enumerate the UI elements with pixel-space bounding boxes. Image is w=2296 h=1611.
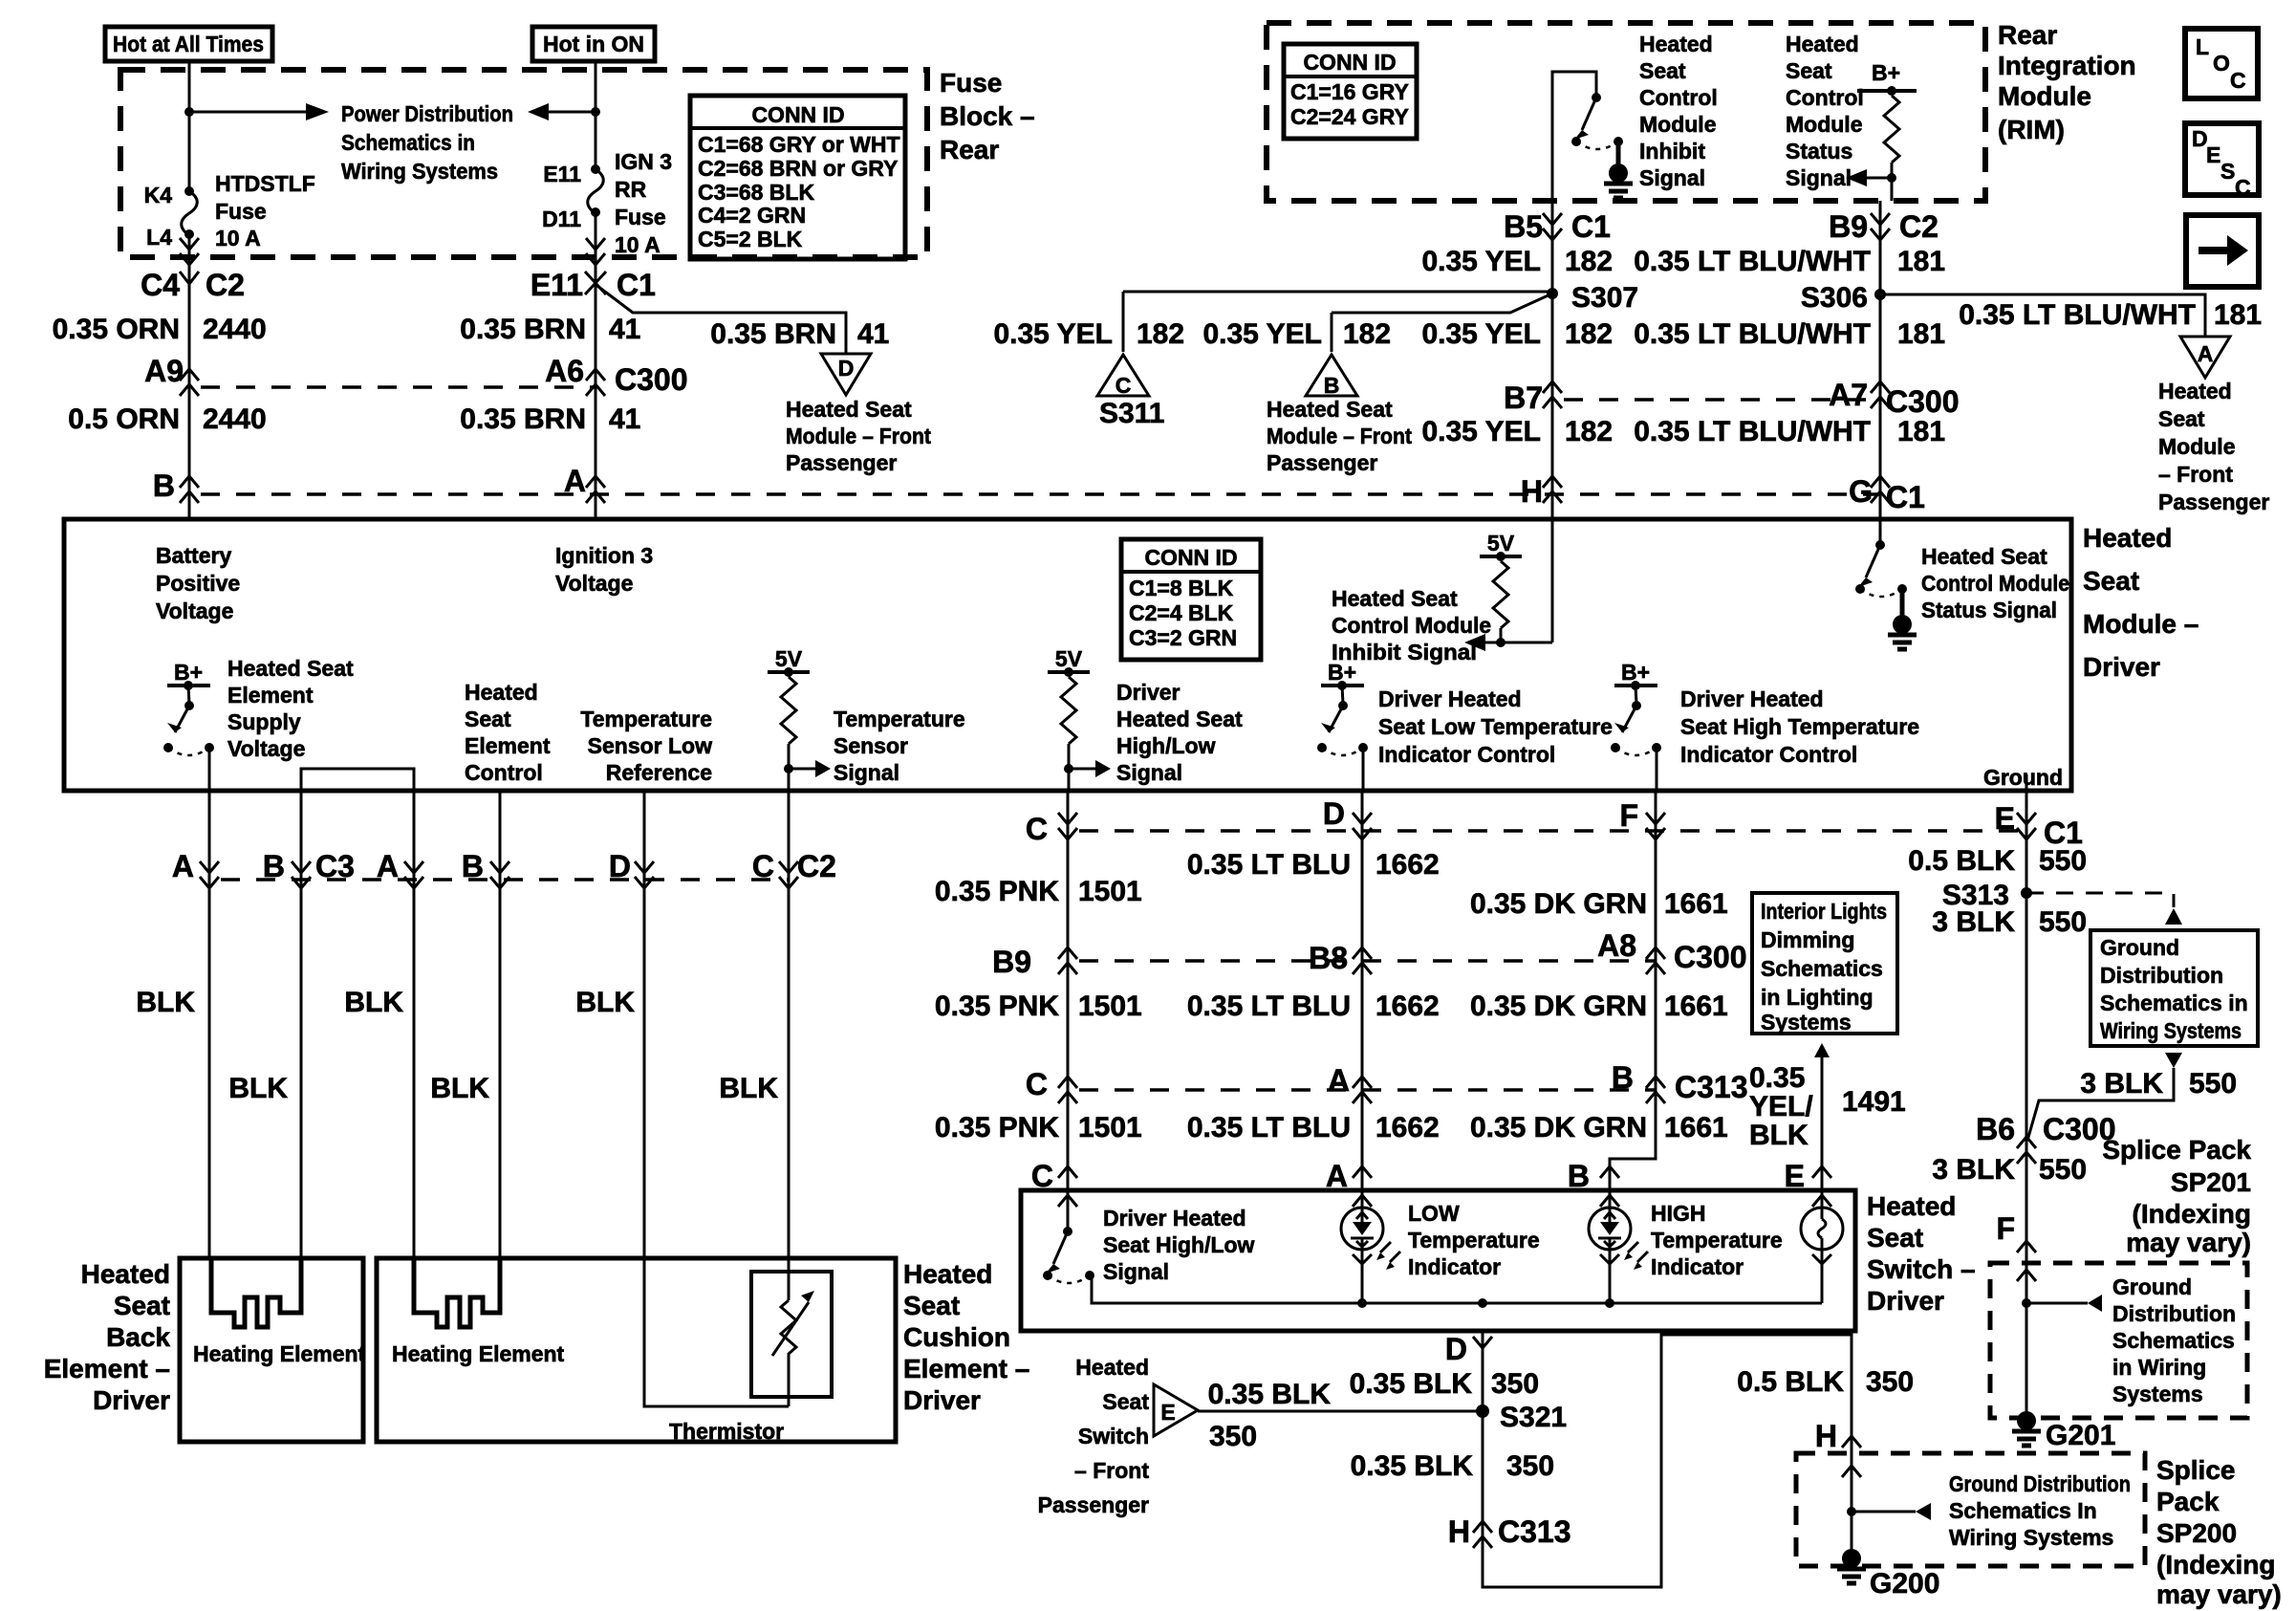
svg-text:(Indexing: (Indexing (2133, 1199, 2251, 1229)
svg-text:C: C (1031, 1159, 1053, 1193)
svg-text:C: C (2235, 175, 2251, 200)
svg-text:E: E (1995, 801, 2015, 836)
svg-text:Hot in ON: Hot in ON (543, 32, 644, 56)
svg-text:D: D (609, 849, 631, 883)
svg-text:Status Signal: Status Signal (1921, 598, 2057, 622)
svg-text:(Indexing: (Indexing (2156, 1550, 2275, 1579)
svg-text:Wiring Systems: Wiring Systems (1949, 1525, 2113, 1550)
svg-text:3 BLK: 3 BLK (2080, 1068, 2163, 1099)
svg-text:Block –: Block – (940, 101, 1035, 131)
svg-text:181: 181 (1897, 318, 1945, 350)
svg-text:Cushion: Cushion (903, 1322, 1010, 1352)
svg-text:Heated: Heated (1075, 1355, 1149, 1380)
svg-text:Control: Control (465, 760, 543, 785)
svg-text:Control Module: Control Module (1921, 571, 2069, 596)
svg-text:Ground: Ground (1983, 765, 2063, 790)
svg-text:HIGH: HIGH (1651, 1201, 1706, 1226)
svg-text:Passenger: Passenger (786, 450, 897, 475)
svg-text:CONN ID: CONN ID (751, 102, 844, 127)
svg-text:Seat: Seat (1867, 1223, 1923, 1252)
svg-text:LOW: LOW (1408, 1201, 1460, 1226)
svg-text:Heated Seat: Heated Seat (1921, 544, 2047, 569)
svg-text:Heating Element: Heating Element (193, 1341, 366, 1366)
svg-text:A: A (1326, 1159, 1348, 1193)
svg-text:Reference: Reference (606, 760, 712, 785)
svg-text:L4: L4 (146, 225, 172, 250)
svg-text:C3: C3 (315, 849, 355, 883)
svg-text:0.35 BRN: 0.35 BRN (460, 403, 586, 435)
svg-text:Status: Status (1786, 139, 1852, 163)
svg-text:CONN ID: CONN ID (1144, 545, 1237, 570)
svg-text:C300: C300 (1886, 384, 1960, 419)
svg-text:B9: B9 (1829, 209, 1868, 244)
svg-text:(RIM): (RIM) (1998, 115, 2065, 144)
svg-text:Ground Distribution: Ground Distribution (1949, 1471, 2131, 1496)
svg-text:Ground: Ground (2112, 1274, 2192, 1299)
svg-text:C300: C300 (1674, 940, 1747, 974)
svg-text:Signal: Signal (1786, 165, 1852, 190)
svg-text:Switch: Switch (1078, 1424, 1149, 1448)
svg-text:B+: B+ (1872, 60, 1900, 85)
svg-text:E11: E11 (531, 268, 583, 302)
svg-text:B+: B+ (174, 660, 203, 685)
svg-text:5V: 5V (775, 646, 803, 671)
svg-text:Schematics in: Schematics in (341, 130, 475, 155)
svg-text:0.5 BLK: 0.5 BLK (1908, 845, 2015, 877)
svg-text:Heated: Heated (465, 680, 538, 705)
svg-text:– Front: – Front (2158, 462, 2233, 487)
svg-text:0.35 LT BLU/WHT: 0.35 LT BLU/WHT (1634, 246, 1871, 277)
svg-text:182: 182 (1137, 318, 1184, 350)
svg-text:Heated Seat: Heated Seat (786, 397, 912, 422)
svg-text:BLK: BLK (228, 1073, 288, 1104)
svg-text:C: C (752, 849, 774, 883)
svg-text:C1=8 BLK: C1=8 BLK (1129, 576, 1234, 600)
svg-text:C1=16 GRY: C1=16 GRY (1290, 79, 1409, 104)
svg-text:0.35 BLK: 0.35 BLK (1351, 1450, 1474, 1482)
svg-text:0.35 YEL: 0.35 YEL (1421, 416, 1541, 447)
svg-text:1491: 1491 (1842, 1086, 1906, 1118)
svg-text:0.35 PNK: 0.35 PNK (935, 876, 1059, 907)
svg-text:550: 550 (2039, 845, 2087, 877)
svg-text:Inhibit: Inhibit (1639, 139, 1705, 163)
svg-text:High/Low: High/Low (1116, 733, 1216, 758)
svg-text:Signal: Signal (1116, 760, 1182, 785)
svg-text:S: S (2220, 159, 2235, 184)
svg-text:Module: Module (1639, 112, 1717, 137)
svg-text:Indicator: Indicator (1408, 1254, 1501, 1279)
svg-text:350: 350 (1866, 1366, 1914, 1398)
svg-text:1661: 1661 (1664, 888, 1728, 920)
svg-text:Distribution: Distribution (2100, 963, 2223, 988)
svg-text:S307: S307 (1571, 282, 1638, 314)
svg-text:Module – Front: Module – Front (1267, 424, 1412, 448)
svg-text:B: B (153, 468, 175, 503)
svg-text:Seat: Seat (2158, 406, 2205, 431)
svg-text:– Front: – Front (1074, 1458, 1149, 1483)
svg-text:0.35 PNK: 0.35 PNK (935, 991, 1059, 1022)
svg-text:Power Distribution: Power Distribution (341, 101, 513, 126)
svg-text:Control Module: Control Module (1332, 613, 1491, 638)
svg-text:Module: Module (1998, 81, 2091, 111)
svg-text:A7: A7 (1829, 378, 1868, 412)
svg-text:5V: 5V (1055, 646, 1083, 671)
svg-text:10 A: 10 A (615, 232, 661, 257)
svg-text:D: D (838, 356, 855, 381)
svg-text:Element: Element (227, 683, 314, 708)
svg-text:0.35 YEL: 0.35 YEL (993, 318, 1113, 350)
svg-text:Ignition 3: Ignition 3 (555, 543, 653, 568)
svg-text:D11: D11 (542, 207, 581, 231)
svg-text:Heated: Heated (1867, 1191, 1956, 1221)
svg-text:Passenger: Passenger (1038, 1492, 1149, 1517)
svg-text:Heated: Heated (2083, 523, 2172, 553)
svg-text:E: E (1785, 1159, 1805, 1193)
svg-text:Seat: Seat (114, 1291, 170, 1320)
svg-text:Temperature: Temperature (834, 707, 965, 731)
svg-text:C1: C1 (1886, 480, 1925, 514)
svg-text:Fuse: Fuse (615, 205, 666, 229)
svg-text:41: 41 (609, 403, 640, 435)
svg-text:Hot at All Times: Hot at All Times (113, 32, 264, 56)
svg-text:Battery: Battery (156, 543, 231, 568)
svg-text:181: 181 (1897, 416, 1945, 447)
svg-text:3 BLK: 3 BLK (1932, 1154, 2015, 1186)
svg-text:A: A (377, 849, 399, 883)
svg-text:C2: C2 (206, 268, 245, 302)
svg-text:3 BLK: 3 BLK (1932, 906, 2015, 938)
svg-text:C3=68 BLK: C3=68 BLK (698, 180, 814, 205)
svg-text:BLK: BLK (430, 1073, 489, 1104)
svg-text:Wiring Systems: Wiring Systems (341, 159, 498, 184)
svg-text:C313: C313 (1675, 1070, 1748, 1104)
svg-text:Seat: Seat (2083, 566, 2139, 596)
svg-text:0.35 ORN: 0.35 ORN (53, 314, 180, 345)
svg-text:G200: G200 (1870, 1568, 1939, 1600)
svg-text:Heating Element: Heating Element (392, 1341, 565, 1366)
svg-text:Signal: Signal (1103, 1259, 1169, 1284)
svg-text:10 A: 10 A (215, 226, 261, 250)
svg-text:Thermistor: Thermistor (669, 1419, 784, 1444)
svg-text:0.35 DK GRN: 0.35 DK GRN (1470, 991, 1647, 1022)
svg-text:Sensor Low: Sensor Low (588, 733, 712, 758)
svg-text:Seat: Seat (1639, 58, 1686, 83)
svg-text:Heated Seat: Heated Seat (227, 656, 354, 681)
svg-text:182: 182 (1565, 246, 1613, 277)
svg-text:Seat High Temperature: Seat High Temperature (1680, 714, 1919, 739)
svg-text:Seat: Seat (1786, 58, 1832, 83)
svg-text:Supply: Supply (227, 709, 301, 734)
svg-text:0.35 BRN: 0.35 BRN (710, 318, 836, 350)
svg-text:F: F (1996, 1211, 2015, 1246)
svg-text:CONN ID: CONN ID (1303, 50, 1396, 75)
svg-text:may vary): may vary) (2126, 1228, 2251, 1257)
svg-text:A9: A9 (144, 354, 184, 388)
svg-text:Heated: Heated (903, 1259, 992, 1289)
svg-text:BLK: BLK (575, 987, 635, 1018)
svg-text:41: 41 (609, 314, 640, 345)
svg-text:Driver: Driver (903, 1385, 981, 1415)
svg-text:Driver: Driver (1116, 680, 1180, 705)
svg-text:F: F (1619, 798, 1638, 833)
svg-text:Module –: Module – (2083, 609, 2199, 639)
svg-text:0.35 LT BLU/WHT: 0.35 LT BLU/WHT (1959, 299, 2196, 331)
svg-text:B: B (1568, 1159, 1590, 1193)
svg-text:S321: S321 (1500, 1402, 1567, 1433)
svg-text:A6: A6 (545, 354, 584, 388)
svg-text:Heated Seat: Heated Seat (1332, 586, 1458, 611)
svg-text:Schematics: Schematics (2112, 1328, 2235, 1353)
svg-text:0.35 BLK: 0.35 BLK (1350, 1368, 1473, 1400)
svg-text:C: C (2230, 68, 2246, 93)
svg-text:B: B (462, 849, 484, 883)
svg-text:B8: B8 (1309, 941, 1348, 975)
svg-text:0.35 YEL: 0.35 YEL (1421, 246, 1541, 277)
svg-text:Indicator Control: Indicator Control (1378, 742, 1555, 767)
svg-text:Seat: Seat (1102, 1389, 1149, 1414)
svg-text:1661: 1661 (1664, 1112, 1728, 1143)
svg-text:182: 182 (1565, 318, 1613, 350)
svg-text:HTDSTLF: HTDSTLF (215, 171, 315, 196)
svg-text:0.35 LT BLU/WHT: 0.35 LT BLU/WHT (1634, 416, 1871, 447)
svg-text:Heated Seat: Heated Seat (1267, 397, 1393, 422)
svg-text:Passenger: Passenger (2158, 490, 2269, 514)
svg-text:Driver Heated: Driver Heated (1378, 686, 1522, 711)
svg-text:BLK: BLK (136, 987, 195, 1018)
svg-text:Interior Lights: Interior Lights (1761, 899, 1887, 924)
svg-text:Distribution: Distribution (2112, 1301, 2236, 1326)
svg-text:Voltage: Voltage (156, 599, 233, 623)
svg-text:0.35 LT BLU: 0.35 LT BLU (1187, 849, 1351, 881)
svg-text:350: 350 (1491, 1368, 1539, 1400)
svg-text:E: E (2206, 142, 2220, 167)
svg-text:Systems: Systems (1761, 1010, 1852, 1034)
svg-text:0.35 LT BLU/WHT: 0.35 LT BLU/WHT (1634, 318, 1871, 350)
svg-text:C3=2 GRN: C3=2 GRN (1129, 625, 1237, 650)
svg-text:H: H (1521, 474, 1543, 509)
svg-text:Wiring Systems: Wiring Systems (2100, 1018, 2242, 1043)
svg-text:C2=4 BLK: C2=4 BLK (1129, 600, 1234, 625)
svg-text:Rear: Rear (940, 135, 999, 164)
svg-text:C1=68 GRY or WHT: C1=68 GRY or WHT (698, 132, 900, 157)
svg-text:C5=2 BLK: C5=2 BLK (698, 227, 803, 251)
svg-text:Back: Back (106, 1322, 170, 1352)
svg-text:L: L (2196, 34, 2209, 59)
svg-text:Voltage: Voltage (555, 571, 633, 596)
svg-text:Seat High/Low: Seat High/Low (1103, 1232, 1255, 1257)
svg-text:A: A (2198, 341, 2214, 366)
svg-text:Schematics In: Schematics In (1949, 1498, 2097, 1523)
svg-text:YEL/: YEL/ (1749, 1091, 1813, 1122)
svg-text:1501: 1501 (1078, 1112, 1142, 1143)
svg-text:181: 181 (2214, 299, 2262, 331)
svg-text:A: A (1328, 1063, 1350, 1098)
svg-text:Dimming: Dimming (1761, 927, 1854, 952)
svg-text:C2=68 BRN or GRY: C2=68 BRN or GRY (698, 156, 898, 181)
svg-text:Control: Control (1786, 85, 1864, 110)
svg-text:Element: Element (465, 733, 551, 758)
svg-text:RR: RR (615, 177, 647, 202)
svg-text:Rear: Rear (1998, 20, 2057, 50)
svg-text:in Wiring: in Wiring (2112, 1355, 2206, 1380)
svg-text:E11: E11 (543, 162, 581, 186)
svg-text:1662: 1662 (1375, 849, 1440, 881)
svg-text:Signal: Signal (1639, 165, 1705, 190)
svg-text:Driver: Driver (93, 1385, 170, 1415)
svg-text:Driver: Driver (2083, 652, 2160, 682)
svg-text:Heated Seat: Heated Seat (1116, 707, 1243, 731)
svg-text:H: H (1815, 1419, 1837, 1453)
svg-text:0.35 BRN: 0.35 BRN (460, 314, 586, 345)
svg-text:Module: Module (1786, 112, 1863, 137)
svg-text:G: G (1849, 474, 1873, 509)
svg-text:B+: B+ (1328, 660, 1356, 685)
svg-text:C2: C2 (797, 849, 836, 883)
svg-text:SP200: SP200 (2156, 1518, 2237, 1548)
svg-text:Temperature: Temperature (580, 707, 712, 731)
svg-text:C: C (1026, 812, 1048, 846)
svg-text:C2=24 GRY: C2=24 GRY (1290, 104, 1409, 129)
svg-text:G201: G201 (2046, 1420, 2115, 1451)
svg-text:Schematics: Schematics (1761, 956, 1883, 981)
svg-text:0.35 LT BLU: 0.35 LT BLU (1187, 1112, 1351, 1143)
svg-text:Pack: Pack (2156, 1487, 2220, 1516)
svg-text:C300: C300 (615, 362, 688, 397)
svg-text:B7: B7 (1504, 381, 1543, 415)
svg-text:Driver Heated: Driver Heated (1680, 686, 1824, 711)
svg-text:0.5 BLK: 0.5 BLK (1737, 1366, 1844, 1398)
svg-text:Temperature: Temperature (1408, 1228, 1540, 1252)
svg-text:H: H (1448, 1514, 1470, 1549)
svg-text:O: O (2213, 51, 2230, 76)
svg-text:1662: 1662 (1375, 1112, 1440, 1143)
svg-text:B: B (1612, 1060, 1634, 1095)
svg-text:Control: Control (1639, 85, 1718, 110)
svg-text:C4: C4 (141, 268, 180, 302)
svg-text:BLK: BLK (344, 987, 403, 1018)
svg-text:SP201: SP201 (2171, 1167, 2251, 1197)
svg-text:Module: Module (2158, 434, 2236, 459)
svg-text:D: D (1445, 1332, 1467, 1366)
svg-text:B9: B9 (992, 945, 1031, 979)
svg-text:182: 182 (1565, 416, 1613, 447)
svg-text:350: 350 (1209, 1421, 1257, 1452)
svg-text:Seat: Seat (465, 707, 511, 731)
svg-text:181: 181 (1897, 246, 1945, 277)
svg-text:A8: A8 (1597, 928, 1636, 963)
svg-text:5V: 5V (1487, 531, 1515, 555)
svg-text:1662: 1662 (1375, 991, 1440, 1022)
svg-text:2440: 2440 (203, 314, 267, 345)
svg-text:Module – Front: Module – Front (786, 424, 931, 448)
svg-text:Fuse: Fuse (215, 199, 267, 224)
svg-text:C: C (1026, 1067, 1048, 1101)
svg-text:E: E (1160, 1400, 1175, 1425)
svg-text:41: 41 (857, 318, 889, 350)
svg-text:C2: C2 (1899, 209, 1939, 244)
svg-text:B: B (1324, 373, 1340, 398)
svg-text:Driver Heated: Driver Heated (1103, 1206, 1246, 1230)
svg-text:A: A (172, 849, 194, 883)
svg-text:Driver: Driver (1867, 1286, 1944, 1316)
svg-text:0.35 DK GRN: 0.35 DK GRN (1470, 1112, 1647, 1143)
svg-text:Splice Pack: Splice Pack (2102, 1135, 2251, 1165)
svg-text:B+: B+ (1621, 660, 1650, 685)
svg-text:B: B (263, 849, 285, 883)
svg-text:0.35 YEL: 0.35 YEL (1421, 318, 1541, 350)
svg-text:S311: S311 (1099, 398, 1164, 429)
svg-text:550: 550 (2039, 906, 2087, 938)
svg-text:B6: B6 (1976, 1112, 2015, 1146)
svg-text:A: A (564, 464, 586, 498)
svg-text:Sensor: Sensor (834, 733, 908, 758)
svg-text:Element –: Element – (903, 1354, 1029, 1383)
svg-text:Heated: Heated (2158, 379, 2232, 403)
svg-text:Element –: Element – (44, 1354, 170, 1383)
svg-text:0.35: 0.35 (1749, 1062, 1805, 1094)
svg-text:0.35 DK GRN: 0.35 DK GRN (1470, 888, 1647, 920)
svg-text:C: C (1116, 373, 1132, 398)
svg-text:0.35 PNK: 0.35 PNK (935, 1112, 1059, 1143)
svg-text:Heated: Heated (1639, 32, 1713, 56)
svg-text:Heated: Heated (81, 1259, 170, 1289)
svg-text:Voltage: Voltage (227, 736, 305, 761)
svg-text:C313: C313 (1498, 1514, 1571, 1549)
svg-text:0.35 LT BLU: 0.35 LT BLU (1187, 991, 1351, 1022)
svg-text:Splice: Splice (2156, 1455, 2235, 1485)
svg-text:1661: 1661 (1664, 991, 1728, 1022)
svg-text:1501: 1501 (1078, 876, 1142, 907)
svg-text:550: 550 (2189, 1068, 2237, 1099)
svg-text:S306: S306 (1801, 282, 1868, 314)
svg-text:Integration: Integration (1998, 51, 2136, 80)
svg-text:K4: K4 (144, 183, 173, 207)
svg-text:Ground: Ground (2100, 935, 2179, 960)
svg-text:Heated: Heated (1786, 32, 1859, 56)
svg-text:BLK: BLK (719, 1073, 778, 1104)
svg-text:B5: B5 (1504, 209, 1543, 244)
svg-text:2440: 2440 (203, 403, 267, 435)
svg-text:Seat Low Temperature: Seat Low Temperature (1378, 714, 1613, 739)
svg-text:Indicator: Indicator (1651, 1254, 1744, 1279)
svg-text:Schematics in: Schematics in (2100, 991, 2248, 1015)
svg-text:in Lighting: in Lighting (1761, 985, 1874, 1010)
svg-text:0.35 BLK: 0.35 BLK (1208, 1379, 1332, 1410)
svg-text:IGN 3: IGN 3 (615, 149, 672, 174)
svg-text:Positive: Positive (156, 571, 240, 596)
svg-text:BLK: BLK (1749, 1120, 1809, 1151)
svg-text:1501: 1501 (1078, 991, 1142, 1022)
svg-text:C1: C1 (1571, 209, 1611, 244)
svg-text:Indicator Control: Indicator Control (1680, 742, 1857, 767)
svg-text:Passenger: Passenger (1267, 450, 1377, 475)
svg-text:C1: C1 (617, 268, 656, 302)
svg-text:Signal: Signal (834, 760, 899, 785)
svg-text:C4=2 GRN: C4=2 GRN (698, 203, 806, 228)
svg-text:Fuse: Fuse (940, 68, 1002, 98)
svg-text:350: 350 (1506, 1450, 1554, 1482)
svg-text:0.35 YEL: 0.35 YEL (1202, 318, 1322, 350)
svg-text:550: 550 (2039, 1154, 2087, 1186)
svg-text:182: 182 (1343, 318, 1391, 350)
svg-text:Temperature: Temperature (1651, 1228, 1783, 1252)
svg-text:D: D (1323, 796, 1345, 831)
svg-text:may vary): may vary) (2156, 1579, 2282, 1609)
svg-text:0.5 ORN: 0.5 ORN (68, 403, 180, 435)
svg-text:Switch –: Switch – (1867, 1254, 1976, 1284)
svg-text:Systems: Systems (2112, 1382, 2203, 1406)
svg-text:Seat: Seat (903, 1291, 960, 1320)
